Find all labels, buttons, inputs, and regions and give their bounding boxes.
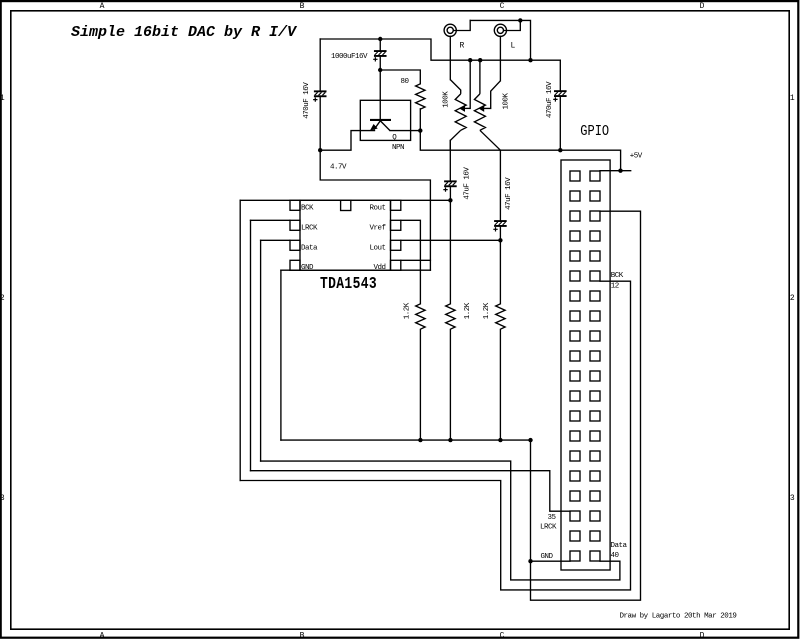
svg-text:1000uF16V: 1000uF16V bbox=[331, 53, 368, 61]
svg-text:A: A bbox=[100, 631, 105, 640]
svg-text:1: 1 bbox=[0, 94, 5, 103]
svg-text:Draw by Lagarto 20th Mar 2019: Draw by Lagarto 20th Mar 2019 bbox=[620, 613, 737, 621]
svg-text:B: B bbox=[300, 631, 305, 640]
svg-text:R: R bbox=[460, 42, 465, 51]
svg-text:NPN: NPN bbox=[392, 144, 404, 152]
svg-text:47uF 16V: 47uF 16V bbox=[505, 177, 513, 210]
svg-text:C: C bbox=[500, 631, 505, 640]
svg-text:LRCK: LRCK bbox=[301, 224, 318, 232]
svg-text:12: 12 bbox=[611, 283, 619, 291]
svg-text:100K: 100K bbox=[442, 91, 450, 108]
svg-text:Lout: Lout bbox=[369, 244, 385, 252]
svg-text:B: B bbox=[300, 2, 305, 11]
svg-text:A: A bbox=[100, 2, 105, 11]
svg-text:3: 3 bbox=[790, 494, 795, 503]
svg-text:2: 2 bbox=[790, 294, 795, 303]
svg-text:4.7V: 4.7V bbox=[330, 164, 347, 172]
svg-text:Vdd: Vdd bbox=[373, 264, 385, 272]
svg-text:BCK: BCK bbox=[301, 204, 314, 212]
svg-text:100K: 100K bbox=[503, 92, 511, 109]
svg-text:D: D bbox=[700, 631, 705, 640]
svg-text:80: 80 bbox=[401, 78, 410, 86]
svg-text:1: 1 bbox=[790, 94, 795, 103]
svg-text:1.2K: 1.2K bbox=[464, 302, 472, 319]
svg-text:GPIO: GPIO bbox=[580, 123, 609, 139]
svg-text:470uF 16V: 470uF 16V bbox=[303, 82, 311, 119]
svg-text:C: C bbox=[500, 2, 505, 11]
svg-text:2: 2 bbox=[0, 294, 5, 303]
svg-text:TDA1543: TDA1543 bbox=[320, 273, 377, 293]
svg-text:3: 3 bbox=[0, 494, 5, 503]
svg-text:L: L bbox=[511, 42, 516, 51]
svg-text:35: 35 bbox=[547, 514, 556, 522]
svg-text:+5V: +5V bbox=[630, 152, 643, 160]
svg-text:GND: GND bbox=[301, 264, 314, 272]
svg-text:Vref: Vref bbox=[369, 224, 386, 232]
svg-text:470uF 16V: 470uF 16V bbox=[546, 81, 554, 118]
svg-text:Data: Data bbox=[611, 542, 628, 550]
svg-text:40: 40 bbox=[611, 552, 620, 560]
svg-text:LRCK: LRCK bbox=[540, 523, 557, 531]
svg-text:Rout: Rout bbox=[369, 204, 385, 212]
svg-text:BCK: BCK bbox=[611, 272, 624, 280]
svg-text:GND: GND bbox=[540, 553, 553, 561]
svg-text:1.2K: 1.2K bbox=[483, 302, 491, 319]
svg-text:D: D bbox=[700, 2, 705, 11]
svg-text:Data: Data bbox=[301, 244, 318, 252]
svg-text:Simple 16bit DAC by R I/V: Simple 16bit DAC by R I/V bbox=[71, 24, 298, 41]
svg-text:47uF 16V: 47uF 16V bbox=[464, 167, 472, 200]
svg-text:1.2K: 1.2K bbox=[404, 302, 412, 319]
